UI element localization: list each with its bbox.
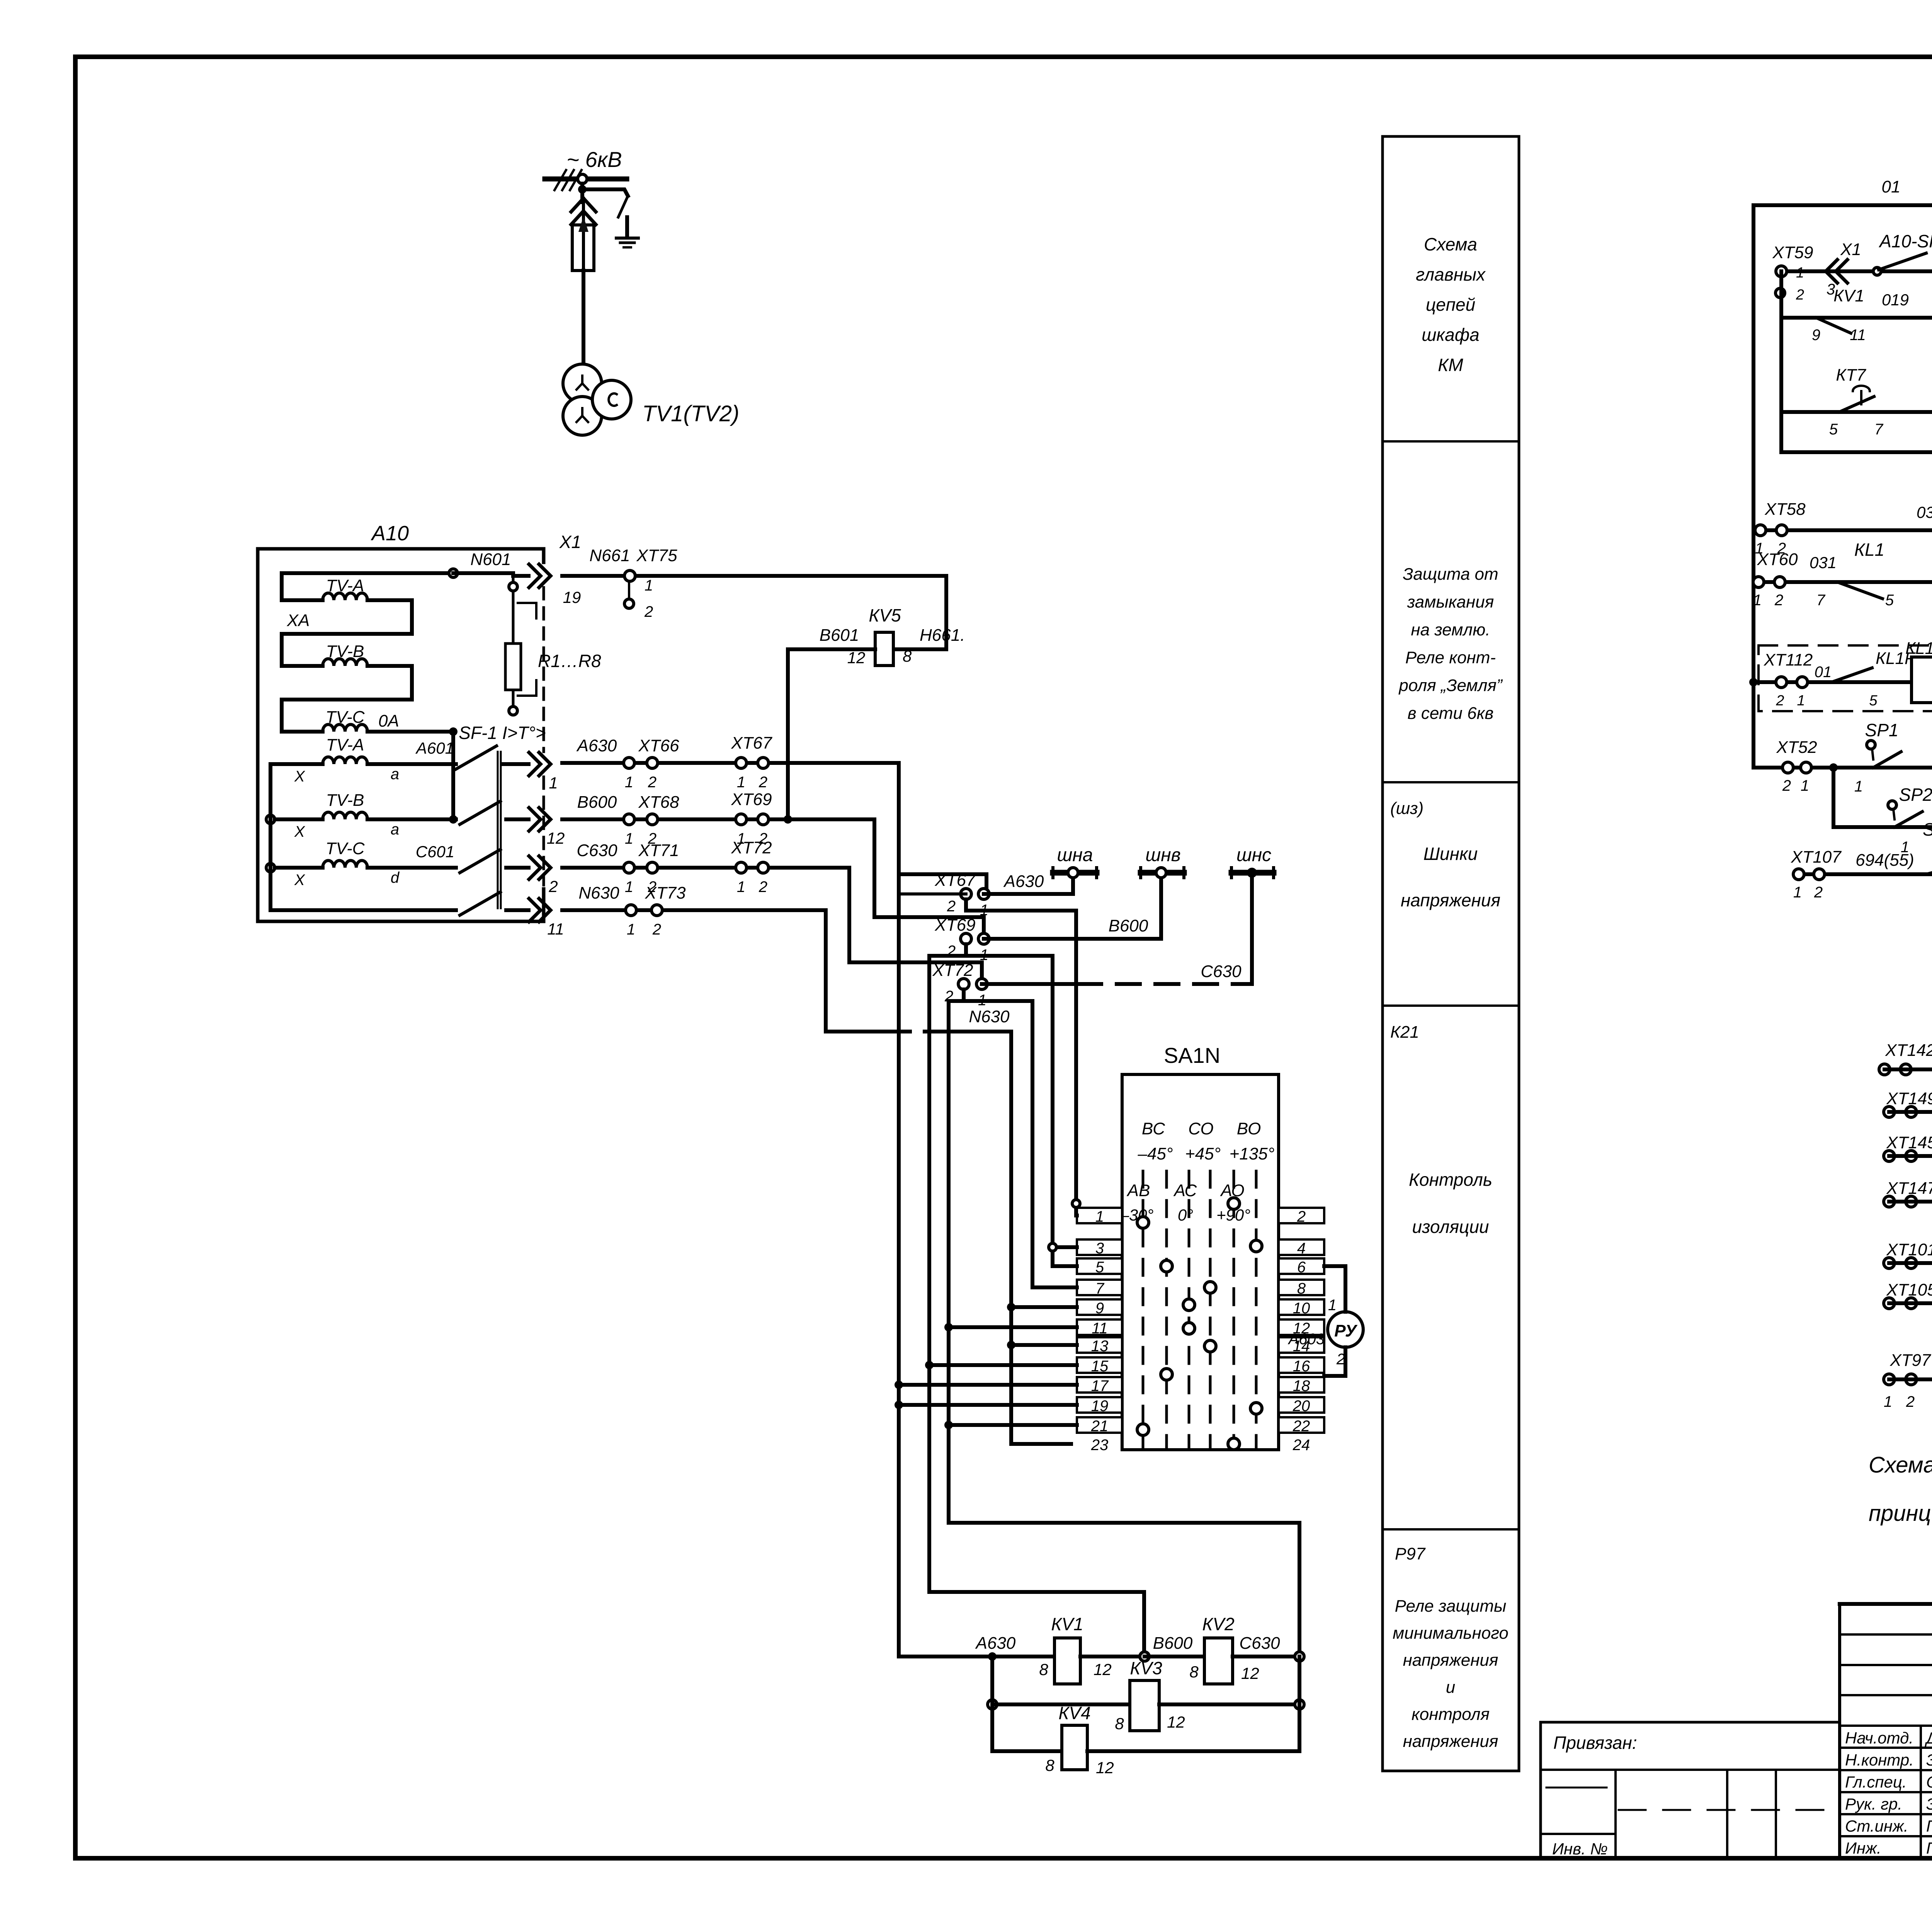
svg-text:Ст.инж.: Ст.инж. — [1845, 1817, 1908, 1835]
winding TV-C primary — [282, 730, 323, 734]
winding TV-A primary — [282, 571, 453, 575]
svg-text:8: 8 — [1189, 1663, 1199, 1681]
svg-text:~ 6кВ: ~ 6кВ — [566, 147, 622, 172]
svg-text:ХТ52: ХТ52 — [1776, 738, 1817, 757]
svg-text:1: 1 — [625, 774, 633, 791]
title block name rows — [1840, 1725, 1932, 1727]
contact V2 row XT142 — [1879, 1064, 1890, 1075]
svg-text:1: 1 — [1095, 1208, 1104, 1225]
svg-text:замыкания: замыкания — [1407, 592, 1494, 611]
svg-text:ХТ68: ХТ68 — [638, 793, 679, 812]
svg-text:КV3: КV3 — [1130, 1658, 1162, 1678]
bus шнс — [1231, 870, 1274, 876]
svg-text:ХА: ХА — [287, 611, 310, 630]
svg-text:SF-1 I>Т°>: SF-1 I>Т°> — [459, 723, 546, 743]
svg-text:А10-SF1: А10-SF1 — [1878, 231, 1932, 251]
svg-text:3: 3 — [1095, 1240, 1104, 1257]
node 0A — [449, 727, 457, 736]
svg-text:КL1: КL1 — [1854, 540, 1884, 560]
svg-text:Х1: Х1 — [1840, 240, 1861, 259]
svg-text:ХТ66: ХТ66 — [638, 736, 679, 755]
contact row ХТ105 690-692 ХТ106 — [1884, 1298, 1895, 1309]
svg-text:8: 8 — [903, 647, 912, 665]
column divider 2 — [1383, 781, 1519, 783]
svg-text:в сети 6кв: в сети 6кв — [1408, 704, 1494, 723]
dashed box KL1F from scheme Q1 — [1759, 645, 1932, 711]
svg-text:1: 1 — [1328, 1297, 1337, 1314]
voltage transformer TV1(TV2) — [563, 364, 602, 403]
svg-text:В601: В601 — [820, 626, 859, 645]
svg-text:а: а — [391, 821, 399, 838]
relay KV3 — [1130, 1680, 1159, 1731]
title block top line — [1840, 1602, 1932, 1606]
block A10 outline — [258, 549, 544, 921]
column divider 3 — [1383, 1004, 1519, 1007]
terminal XT73 — [626, 905, 636, 916]
wire KV3 row — [988, 1700, 997, 1709]
wire left bus of control section — [1752, 205, 1755, 768]
svg-text:Х: Х — [294, 872, 305, 889]
svg-text:А630: А630 — [576, 736, 617, 755]
terminal XT107 — [1793, 869, 1804, 880]
title block verticals — [1838, 1604, 1841, 1858]
svg-text:ХТ60: ХТ60 — [1757, 550, 1798, 569]
svg-text:11: 11 — [547, 920, 564, 938]
bus шна — [1053, 870, 1097, 876]
svg-text:8: 8 — [1115, 1714, 1124, 1733]
column divider 1 — [1383, 440, 1519, 443]
svg-text:16: 16 — [1293, 1358, 1310, 1375]
svg-text:1: 1 — [1854, 778, 1863, 795]
svg-text:12: 12 — [1241, 1664, 1259, 1682]
svg-text:АС: АС — [1173, 1181, 1197, 1200]
svg-text:ХТ72: ХТ72 — [731, 838, 772, 857]
wire N601/N661 row to KV5 — [562, 574, 946, 578]
svg-text:Н661.: Н661. — [920, 626, 965, 645]
svg-text:1: 1 — [1797, 693, 1805, 709]
terminal XT71 — [624, 862, 634, 873]
wire В600 descent and jog to XT69a — [874, 819, 984, 939]
svg-text:минимального: минимального — [1393, 1624, 1509, 1643]
svg-text:КV1: КV1 — [1833, 286, 1864, 305]
svg-text:2: 2 — [759, 774, 767, 791]
svg-text:и: и — [1446, 1678, 1455, 1697]
svg-text:Х: Х — [294, 768, 305, 785]
svg-text:С601: С601 — [416, 843, 454, 861]
svg-text:SP2: SP2 — [1899, 785, 1932, 805]
svg-text:24: 24 — [1293, 1437, 1310, 1454]
svg-text:1: 1 — [549, 774, 558, 792]
terminal XT69 — [736, 814, 747, 825]
svg-text:КL1F: КL1F — [1905, 639, 1932, 658]
svg-text:12: 12 — [1094, 1660, 1112, 1679]
svg-text:принципиальной схемы 5В6.350: принципиальной схемы 5В6.350.580 исп. 02… — [1869, 1501, 1932, 1526]
svg-text:SQ1: SQ1 — [1923, 819, 1932, 839]
svg-text:2: 2 — [947, 898, 956, 915]
ground switch contact — [618, 196, 628, 217]
svg-text:В600: В600 — [577, 793, 617, 812]
svg-text:шнс: шнс — [1236, 845, 1271, 865]
svg-text:КТ7: КТ7 — [1836, 366, 1866, 385]
svg-text:SA1N: SA1N — [1164, 1043, 1220, 1067]
svg-text:7: 7 — [1816, 592, 1826, 609]
relay KV4 — [1062, 1725, 1087, 1770]
svg-text:19: 19 — [563, 588, 581, 606]
svg-text:ХТ72: ХТ72 — [932, 961, 973, 980]
svg-text:18: 18 — [1293, 1377, 1310, 1394]
svg-text:ХТ147: ХТ147 — [1886, 1179, 1932, 1198]
wire VD5 row — [1753, 528, 1932, 532]
svg-text:N601: N601 — [470, 550, 511, 569]
disconnector arrows QS — [571, 198, 596, 225]
svg-text:17: 17 — [1091, 1377, 1109, 1394]
ground symbol — [616, 237, 638, 240]
svg-text:ХТ69: ХТ69 — [934, 916, 975, 935]
svg-text:Гл.спец.: Гл.спец. — [1845, 1773, 1907, 1791]
svg-text:2: 2 — [1796, 287, 1804, 303]
svg-text:5: 5 — [1829, 421, 1838, 438]
svg-text:шнв: шнв — [1145, 845, 1180, 865]
svg-text:0А: 0А — [378, 712, 399, 730]
svg-text:Инж.: Инж. — [1845, 1839, 1881, 1857]
wire 6kV drop — [580, 184, 584, 202]
svg-text:Х1: Х1 — [559, 532, 581, 552]
wire KT8 contact row (row5) — [1781, 450, 1932, 454]
relay KV1 — [1054, 1638, 1080, 1684]
привязан dashes — [1546, 1787, 1607, 1789]
wire KV contacts row (row3) — [1779, 271, 1783, 412]
svg-text:ХТ107: ХТ107 — [1791, 848, 1842, 867]
svg-text:12: 12 — [1096, 1759, 1114, 1777]
svg-text:Схема выполнена на основани: Схема выполнена на основании заводской — [1869, 1452, 1932, 1478]
svg-text:1: 1 — [627, 921, 635, 938]
svg-text:ХТ149: ХТ149 — [1886, 1089, 1932, 1108]
svg-text:Н.контр.: Н.контр. — [1845, 1751, 1914, 1769]
svg-text:главных: главных — [1416, 264, 1486, 284]
svg-text:1: 1 — [625, 830, 633, 847]
svg-text:СО: СО — [1188, 1119, 1214, 1138]
output chevron В600 pin12 — [529, 808, 551, 831]
svg-text:К21: К21 — [1390, 1023, 1419, 1042]
svg-text:019: 019 — [1882, 291, 1909, 309]
wire KT7 contact row (row4) — [1781, 410, 1932, 414]
svg-text:01: 01 — [1882, 177, 1901, 196]
svg-text:1: 1 — [1884, 1393, 1892, 1410]
svg-text:ТV-В: ТV-В — [326, 791, 364, 810]
node on 6kV bus — [578, 174, 587, 184]
SA1N dashed contact columns — [1142, 1171, 1145, 1447]
terminal XT58 — [1755, 525, 1766, 536]
winding TV-A secondary — [270, 762, 323, 766]
output chevron А630 pin1 — [529, 752, 551, 776]
relay coil KL1F — [1912, 657, 1932, 703]
svg-text:ХТ71: ХТ71 — [638, 841, 679, 860]
svg-text:2: 2 — [548, 877, 558, 896]
svg-text:ХТ142: ХТ142 — [1885, 1041, 1932, 1060]
svg-text:С630: С630 — [577, 841, 617, 860]
svg-text:шна: шна — [1057, 845, 1093, 865]
output chevron X1 pin19 net N601 — [529, 564, 551, 587]
svg-text:Х: Х — [294, 823, 305, 840]
svg-text:11: 11 — [1092, 1320, 1108, 1337]
wire А630 tap to SA1N — [966, 899, 1076, 1216]
svg-text:13: 13 — [1091, 1338, 1109, 1355]
svg-text:ТV-С: ТV-С — [325, 708, 365, 727]
svg-text:ХТ105: ХТ105 — [1886, 1280, 1932, 1299]
wire SP row — [1753, 766, 1932, 770]
svg-text:Привязан:: Привязан: — [1553, 1733, 1637, 1753]
svg-text:11: 11 — [1850, 327, 1866, 344]
svg-text:КМ: КМ — [1438, 355, 1463, 375]
привязан table — [1541, 1721, 1840, 1724]
contact X1 pin3 chevron left — [1826, 260, 1847, 283]
svg-text:+135°: +135° — [1230, 1144, 1275, 1163]
svg-text:+45°: +45° — [1185, 1144, 1221, 1163]
svg-text:2: 2 — [1782, 777, 1791, 794]
svg-text:Завьялова: Завьялова — [1926, 1795, 1932, 1813]
wire row А630-В600-С630 bottom — [899, 1655, 1054, 1658]
svg-text:031: 031 — [1810, 553, 1837, 572]
svg-text:Рук. гр.: Рук. гр. — [1845, 1795, 1902, 1813]
relay KV5 — [875, 632, 893, 666]
wire right bus of KV rows — [1298, 1657, 1301, 1751]
svg-text:1: 1 — [1801, 777, 1809, 794]
svg-text:цепей: цепей — [1426, 295, 1475, 315]
terminal XT69 second — [961, 933, 971, 944]
contact row ХТ101 682-684 ХТ102 — [1884, 1258, 1895, 1268]
svg-text:N661: N661 — [589, 546, 630, 565]
svg-text:Р97: Р97 — [1395, 1544, 1426, 1563]
contact SP2 — [1888, 801, 1896, 809]
contact row ХТ149 895-896 ХТ150 — [1884, 1107, 1895, 1117]
svg-text:ТV-А: ТV-А — [326, 735, 364, 754]
svg-text:2: 2 — [1774, 592, 1783, 609]
function column box — [1383, 136, 1519, 1771]
bus шнв — [1141, 870, 1184, 876]
svg-text:ВО: ВО — [1237, 1119, 1261, 1138]
wire XA loop — [410, 600, 414, 634]
wire PU to cells 6 and 16 — [1324, 1266, 1345, 1312]
terminal XT67 — [736, 758, 747, 768]
svg-text:1: 1 — [737, 878, 745, 896]
svg-text:РУ: РУ — [1334, 1321, 1358, 1340]
contact row XT97 820 КН12 821 XT98 — [1884, 1374, 1895, 1385]
svg-text:1: 1 — [645, 577, 653, 594]
svg-text:d: d — [391, 869, 400, 886]
terminal XT59 — [1776, 266, 1787, 277]
wire A601 to SF1 — [429, 762, 456, 766]
output chevron С630 pin2 — [529, 856, 551, 879]
wire to ground disconnector — [582, 189, 628, 196]
wire 01 — [1753, 203, 1932, 207]
svg-text:Долотов: Долотов — [1925, 1729, 1932, 1747]
wire С630 to bus шнс dashed — [982, 982, 1078, 986]
svg-text:Завьялова: Завьялова — [1926, 1751, 1932, 1769]
SA1N left terminal cells — [1077, 1208, 1122, 1223]
winding TV-C secondary — [266, 863, 275, 872]
svg-text:ХТ75: ХТ75 — [636, 546, 677, 565]
wire С630 row — [562, 866, 849, 870]
terminal XT52 — [1782, 762, 1793, 773]
wire B601 from KV5 to B600 row — [788, 649, 875, 819]
svg-text:2: 2 — [1776, 693, 1784, 709]
column divider 4 — [1383, 1528, 1519, 1531]
wire KL1F row — [1753, 680, 1912, 684]
svg-text:Реле защиты: Реле защиты — [1395, 1597, 1507, 1616]
svg-text:В600: В600 — [1153, 1634, 1193, 1653]
svg-text:12: 12 — [847, 649, 866, 667]
SA1N contact circles — [1137, 1217, 1149, 1228]
svg-text:5: 5 — [1885, 592, 1894, 609]
svg-text:21: 21 — [1091, 1418, 1109, 1435]
wire SQ1 row bottom — [1799, 872, 1932, 876]
title block small table rows upper — [1840, 1633, 1932, 1636]
svg-text:ХТ112: ХТ112 — [1764, 650, 1813, 669]
SA1N right terminal cells — [1279, 1208, 1324, 1223]
wire secondary left bus — [269, 764, 272, 910]
svg-text:TV1(ТV2): TV1(ТV2) — [642, 401, 739, 426]
svg-text:Схема: Схема — [1424, 234, 1477, 254]
svg-text:7: 7 — [1095, 1280, 1105, 1297]
svg-text:8: 8 — [1039, 1660, 1048, 1679]
svg-text:ХТ73: ХТ73 — [645, 884, 686, 902]
svg-text:на землю.: на землю. — [1411, 620, 1490, 639]
wire fuse to transformer with arrow — [582, 198, 585, 225]
svg-text:ХТ59: ХТ59 — [1772, 243, 1813, 262]
svg-text:ХТ67: ХТ67 — [934, 871, 976, 890]
svg-text:12: 12 — [1167, 1713, 1185, 1731]
svg-text:ХТ101: ХТ101 — [1886, 1240, 1932, 1259]
wire N661 down to KV5 — [893, 576, 946, 649]
svg-text:8: 8 — [1297, 1280, 1306, 1297]
svg-text:9: 9 — [1812, 327, 1820, 344]
svg-text:роля „Земля”: роля „Земля” — [1398, 676, 1503, 695]
svg-text:А630: А630 — [975, 1634, 1016, 1653]
svg-text:SP1: SP1 — [1865, 720, 1899, 740]
terminal XT66 — [624, 758, 634, 768]
svg-text:А603: А603 — [1288, 1331, 1325, 1348]
svg-text:ТV-А: ТV-А — [326, 576, 364, 595]
contact KL1 — [1837, 582, 1883, 599]
contact row ХТ147 622-624 ХТ148 — [1884, 1196, 1895, 1207]
svg-text:12: 12 — [547, 829, 565, 847]
svg-text:2: 2 — [652, 921, 661, 938]
contact SP1 — [1867, 741, 1875, 749]
wire N630 row — [562, 908, 826, 912]
svg-text:ХТ69: ХТ69 — [731, 790, 772, 809]
svg-text:1: 1 — [1753, 592, 1762, 609]
svg-text:КV1: КV1 — [1051, 1614, 1083, 1634]
svg-text:2: 2 — [759, 878, 767, 896]
svg-text:23: 23 — [1091, 1437, 1109, 1454]
svg-text:КV2: КV2 — [1202, 1614, 1234, 1634]
output chevron N630 pin11 — [529, 899, 551, 922]
svg-text:а: а — [391, 766, 399, 783]
svg-text:15: 15 — [1091, 1358, 1109, 1375]
svg-text:напряжения: напряжения — [1403, 1732, 1498, 1751]
svg-text:–45°: –45° — [1137, 1144, 1173, 1163]
terminal XT68 — [624, 814, 634, 825]
svg-text:Нач.отд.: Нач.отд. — [1845, 1729, 1913, 1747]
svg-text:АВ: АВ — [1126, 1181, 1150, 1200]
terminal XT72 second — [958, 979, 969, 989]
svg-text:694(55): 694(55) — [1855, 851, 1914, 870]
svg-text:напряжения: напряжения — [1403, 1651, 1498, 1670]
resistor R1...R8 — [449, 569, 457, 577]
svg-text:ВС: ВС — [1142, 1119, 1165, 1138]
terminal XT72 — [736, 862, 747, 873]
wire X1 row (row2) — [1781, 269, 1932, 273]
svg-text:N630: N630 — [969, 1007, 1010, 1026]
wire В600 to bus шнв — [984, 937, 1161, 941]
wire feeders into SA1N left cells — [1009, 1032, 1013, 1444]
svg-text:Прокофьева: Прокофьева — [1926, 1817, 1932, 1835]
svg-text:С630: С630 — [1201, 962, 1242, 981]
contact A10-SF1 — [1873, 267, 1881, 275]
svg-text:2: 2 — [1814, 884, 1823, 901]
wire KL1 row — [1753, 580, 1932, 584]
contact KV1 — [1816, 318, 1851, 333]
svg-text:ХТ145: ХТ145 — [1886, 1133, 1932, 1152]
svg-text:1: 1 — [625, 878, 633, 896]
svg-text:7: 7 — [1874, 421, 1884, 438]
svg-text:01: 01 — [1815, 664, 1832, 681]
svg-text:ТV-В: ТV-В — [326, 642, 364, 661]
wire KV4 row — [992, 1749, 1062, 1753]
switch SA1N box — [1122, 1074, 1279, 1450]
winding TV-B secondary — [266, 815, 275, 824]
svg-text:22: 22 — [1293, 1418, 1310, 1435]
svg-text:Сомин: Сомин — [1926, 1773, 1932, 1791]
wire А630 to bus шна — [984, 892, 1073, 896]
svg-text:033: 033 — [1917, 503, 1932, 521]
wire SP2 branch — [1832, 768, 1835, 827]
voltmeter PU — [1328, 1312, 1363, 1347]
svg-text:Контроль: Контроль — [1409, 1170, 1492, 1190]
svg-text:19: 19 — [1091, 1398, 1109, 1415]
svg-text:9: 9 — [1095, 1300, 1104, 1317]
svg-text:А601: А601 — [415, 739, 454, 757]
svg-text:R1…R8: R1…R8 — [538, 651, 601, 671]
svg-text:шкафа: шкафа — [1422, 325, 1480, 345]
relay KV2 — [1204, 1638, 1233, 1684]
svg-text:20: 20 — [1293, 1398, 1310, 1415]
svg-text:Реле конт-: Реле конт- — [1405, 648, 1496, 667]
svg-text:1: 1 — [1796, 265, 1804, 281]
wire N row — [270, 908, 456, 912]
wire С630 descent and jog to XT72a — [849, 868, 982, 984]
svg-text:Польская: Польская — [1926, 1839, 1932, 1857]
contact KT7 time-delay — [1853, 386, 1870, 391]
svg-text:0°: 0° — [1178, 1206, 1193, 1224]
svg-text:А630: А630 — [1003, 872, 1044, 891]
svg-text:ХТ97: ХТ97 — [1889, 1351, 1931, 1370]
svg-text:4: 4 — [1297, 1240, 1306, 1257]
svg-text:напряжения: напряжения — [1401, 890, 1500, 910]
terminal XT75 — [624, 570, 635, 581]
terminal XT67 second — [961, 889, 971, 899]
bus ~6кВ — [545, 177, 627, 182]
wire С630 tap to SA1N and KV row — [964, 989, 1032, 1287]
wire А630 row — [562, 761, 899, 765]
svg-text:ХТ58: ХТ58 — [1764, 500, 1806, 519]
svg-text:изоляции: изоляции — [1412, 1217, 1489, 1237]
contact row ХТ145 618-620 ХТ146 — [1884, 1151, 1895, 1161]
wire 0A to secondary star point — [451, 732, 455, 819]
svg-text:В600: В600 — [1109, 916, 1148, 935]
svg-text:А10: А10 — [371, 522, 409, 545]
wire А630 descent and jog to XT67a — [897, 763, 901, 1657]
